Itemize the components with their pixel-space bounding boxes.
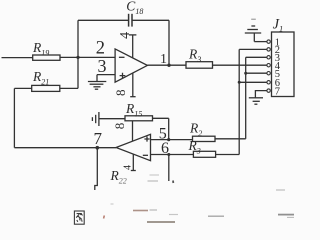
J1 pin 1 circle — [267, 40, 270, 43]
wire pin 5 to R2 — [151, 139, 193, 141]
node pin2 junction — [76, 56, 79, 59]
ground top inverted at J1 — [245, 19, 261, 41]
wire R15 right lead — [153, 117, 169, 119]
node 7 junction — [96, 146, 100, 150]
J1 pin 4 circle — [267, 63, 270, 66]
wire feedback vertical to output node — [168, 20, 170, 65]
resistor R3 — [186, 47, 213, 69]
wire U1 output — [147, 64, 186, 66]
power pin 8 stub U1 — [113, 73, 136, 97]
svg-text:8: 8 — [113, 90, 128, 97]
node J1 pin6 junction — [238, 81, 241, 84]
wire pin 6 to R3b — [151, 154, 194, 156]
svg-text:8: 8 — [112, 123, 127, 130]
J1 pin 2 circle — [267, 48, 270, 51]
resistor R15 — [125, 101, 153, 121]
svg-text:7: 7 — [275, 86, 280, 97]
wire top to capacitor C18 — [78, 19, 129, 21]
power pin 8 stub U2 — [112, 121, 133, 141]
connector J1 — [272, 17, 295, 97]
wire node2 vertical — [77, 20, 79, 88]
wire R19 right lead — [60, 56, 78, 58]
wire pin 3 to ground — [97, 74, 115, 76]
ground at pin 3 — [88, 75, 106, 90]
capacitor C18 — [126, 0, 143, 27]
wire R2 right lead — [215, 138, 246, 140]
wire C18 right lead — [132, 19, 169, 21]
power pin 4 stub U2 — [122, 154, 135, 170]
node pin6 junction — [167, 153, 170, 156]
wire left feedback vertical — [13, 88, 15, 147]
caption figure glyph — [74, 211, 84, 224]
J1 pin 7 circle — [267, 89, 270, 92]
wire input to R19 — [2, 57, 33, 59]
wire R3b right lead — [216, 154, 240, 156]
J1 pin 6 circle — [267, 81, 270, 84]
wire to J1 pin 3 — [246, 56, 267, 58]
caption smudges — [104, 175, 294, 222]
wire J1 pin 7 to ground — [255, 91, 266, 98]
svg-text:4: 4 — [118, 32, 133, 39]
wire op-amp U2 output to node 7 — [97, 147, 116, 149]
wire to op-amp U1 inverting input — [78, 56, 115, 58]
wire ground to J1 pin 1 — [254, 41, 266, 43]
ground at R15 sideways — [92, 112, 99, 126]
wire bottom feedback horizontal — [14, 147, 97, 149]
resistor R21 — [32, 69, 60, 91]
J1 pin 5 circle — [267, 72, 270, 75]
wire R3b vertical to pin2/pin6 — [238, 49, 240, 154]
wire R21 left lead — [14, 87, 31, 89]
op-amp U1 — [115, 49, 147, 82]
wire to J1 pin 5 — [246, 72, 267, 74]
node J1 pin5 junction — [244, 72, 247, 75]
ground bottom at J1 — [249, 98, 263, 104]
J1 pin 3 circle — [267, 56, 270, 59]
resistor R19 — [32, 40, 60, 60]
svg-text:7: 7 — [94, 129, 103, 148]
wire to J1 pin 6 — [239, 81, 267, 83]
wire down to pin 5 — [168, 118, 170, 139]
wire R2 vertical to pin3/pin5 — [245, 57, 247, 139]
resistor R3b — [188, 138, 216, 157]
svg-text:3: 3 — [98, 56, 107, 76]
op-amp U2 — [116, 134, 151, 160]
node pin5 junction — [167, 138, 170, 141]
svg-text:4: 4 — [122, 165, 133, 170]
resistor R2 — [189, 121, 215, 142]
power pin 4 stub U1 — [118, 32, 136, 58]
wire stub down from node 7 — [95, 148, 98, 190]
wire to J1 pin 2 — [239, 48, 267, 50]
wire ground to R15 — [99, 118, 125, 120]
wire R21 right lead — [60, 87, 78, 89]
node output 1 junction — [167, 63, 170, 66]
wire stub down from pin6 — [168, 155, 170, 182]
wire R3 to J1 pin 4 — [213, 64, 267, 66]
